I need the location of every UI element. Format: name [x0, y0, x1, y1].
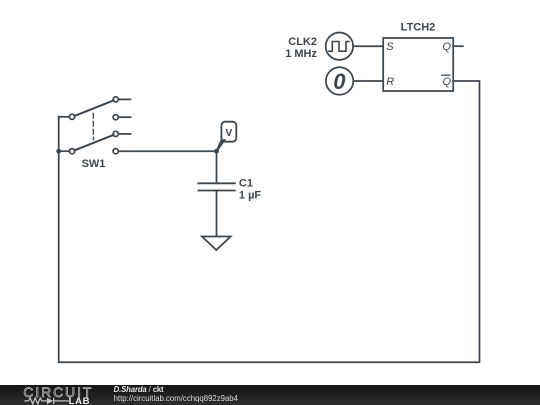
junction dot at capacitor node — [214, 149, 219, 154]
capacitor C1 — [198, 183, 235, 190]
wire: clock source to S pin — [353, 45, 383, 47]
voltmeter probe V — [216, 122, 236, 152]
SW1 gang link (dashed) — [92, 114, 94, 140]
wire: logic-0 source to R pin — [354, 80, 384, 82]
svg-text:0: 0 — [333, 69, 346, 94]
latch LTCH2 box — [383, 38, 453, 91]
svg-text:Q: Q — [442, 41, 451, 53]
switch SW1 — [70, 97, 119, 154]
logic 0 source — [326, 67, 353, 94]
wire: SW1 pole 2 stub from vertical bus — [59, 150, 70, 152]
junction dot at SW1 bus — [56, 149, 61, 154]
wire: capacitor bottom plate to ground — [216, 191, 218, 237]
SW1 lever arm 2 — [75, 135, 114, 150]
svg-text:LTCH2: LTCH2 — [401, 22, 436, 34]
svg-text:V: V — [225, 127, 232, 139]
svg-text:R: R — [386, 76, 394, 88]
wire: node to capacitor top plate — [216, 151, 218, 183]
clock source CLK2 — [326, 33, 353, 60]
pin Q-bar overline — [442, 74, 450, 76]
SW1 throw contact 2 — [113, 115, 118, 120]
svg-text:SW1: SW1 — [82, 158, 106, 170]
wire: SW1 throw 3 stub — [118, 133, 130, 135]
SW1 pole contact 2 — [70, 149, 75, 154]
logo resistor squiggle and diode — [24, 397, 68, 403]
wire: SW1 throw 1 stub — [118, 98, 130, 100]
SW1 throw contact 1 — [113, 97, 118, 102]
ground — [202, 237, 231, 251]
svg-text:LAB: LAB — [69, 395, 91, 405]
SW1 throw contact 4 — [113, 149, 118, 154]
SW1 lever arm 1 — [75, 100, 114, 116]
svg-text:CLK2: CLK2 — [288, 36, 317, 48]
wire: Q output stub — [453, 45, 463, 47]
svg-text:S: S — [386, 41, 394, 53]
svg-text:Q: Q — [442, 76, 451, 88]
CircuitLab logo — [0, 385, 110, 405]
wire: main loop from SW1 pole down, across bottom, up right side to latch Q-bar — [59, 81, 480, 362]
wire: SW1 pole 1 stub from vertical bus — [59, 116, 70, 118]
svg-text:1 MHz: 1 MHz — [285, 48, 317, 60]
SW1 throw contact 3 — [113, 131, 118, 136]
svg-text:C1: C1 — [239, 178, 253, 190]
footer bar — [0, 385, 540, 405]
wire: SW1 throw 4 to capacitor node — [118, 150, 216, 152]
wire: SW1 throw 2 stub — [118, 116, 130, 118]
svg-text:1 µF: 1 µF — [239, 189, 262, 201]
SW1 pole contact 1 — [70, 114, 75, 119]
